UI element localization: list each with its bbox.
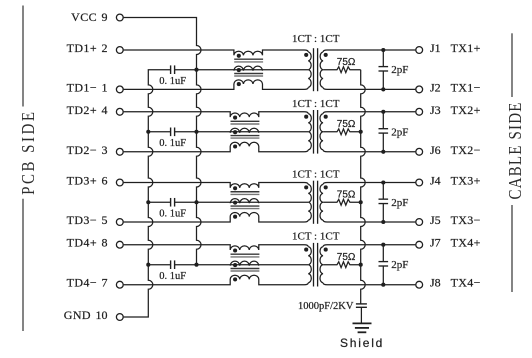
svg-text:3: 3 [102,143,108,157]
svg-text:TX4−: TX4− [451,276,481,290]
svg-text:75Ω: 75Ω [337,190,356,201]
svg-text:PCB SIDE: PCB SIDE [18,110,39,195]
svg-text:1000pF/2KV: 1000pF/2KV [298,301,354,312]
svg-text:75Ω: 75Ω [337,57,356,68]
svg-text:5: 5 [102,213,108,227]
svg-text:TX2−: TX2− [451,143,481,157]
svg-text:1: 1 [102,80,108,94]
svg-text:75Ω: 75Ω [337,252,356,263]
svg-text:2pF: 2pF [391,126,408,138]
svg-text:TD2−: TD2− [67,143,97,157]
svg-text:TX3+: TX3+ [451,174,481,188]
svg-text:1CT : 1CT: 1CT : 1CT [292,98,340,110]
svg-text:TX1−: TX1− [451,80,481,94]
svg-text:TD3−: TD3− [67,213,97,227]
svg-text:4: 4 [102,103,108,117]
svg-text:J1: J1 [430,41,441,55]
svg-text:0. 1uF: 0. 1uF [159,138,186,149]
svg-text:TD3+: TD3+ [67,174,97,188]
svg-text:TD1+: TD1+ [67,41,97,55]
svg-text:TD2+: TD2+ [67,103,97,117]
svg-text:2pF: 2pF [391,64,408,76]
svg-text:J6: J6 [430,143,441,157]
svg-text:7: 7 [102,276,108,290]
svg-text:J7: J7 [430,236,441,250]
svg-text:TX4+: TX4+ [451,236,481,250]
svg-text:0. 1uF: 0. 1uF [159,76,186,87]
svg-text:0. 1uF: 0. 1uF [159,208,186,219]
svg-text:TX1+: TX1+ [451,41,481,55]
svg-text:8: 8 [102,236,108,250]
svg-text:2pF: 2pF [391,197,408,209]
svg-text:2pF: 2pF [391,259,408,271]
svg-text:TX3−: TX3− [451,213,481,227]
svg-text:6: 6 [102,174,108,188]
svg-text:0. 1uF: 0. 1uF [159,271,186,282]
svg-text:9: 9 [102,10,108,24]
svg-text:1CT : 1CT: 1CT : 1CT [292,230,340,242]
svg-text:GND: GND [64,308,91,322]
svg-text:TX2+: TX2+ [451,103,481,117]
svg-text:Shield: Shield [340,336,384,350]
svg-text:TD4−: TD4− [67,276,97,290]
svg-text:75Ω: 75Ω [337,119,356,130]
svg-text:J5: J5 [430,213,441,227]
svg-text:J8: J8 [430,276,441,290]
svg-text:10: 10 [96,308,108,322]
svg-text:CABLE SIDE: CABLE SIDE [504,101,525,199]
svg-text:J4: J4 [430,174,441,188]
svg-text:2: 2 [102,41,108,55]
svg-text:TD4+: TD4+ [67,236,97,250]
svg-text:VCC: VCC [71,10,97,24]
svg-text:J2: J2 [430,80,441,94]
svg-text:J3: J3 [430,103,441,117]
svg-text:1CT : 1CT: 1CT : 1CT [292,168,340,180]
svg-text:TD1−: TD1− [67,80,97,94]
svg-text:1CT : 1CT: 1CT : 1CT [292,33,340,45]
